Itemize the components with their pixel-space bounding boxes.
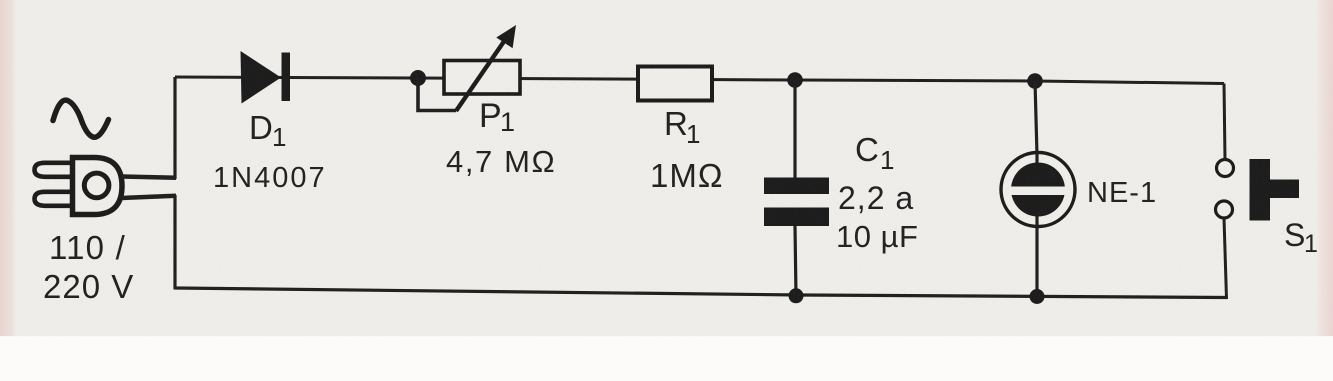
plug body	[73, 158, 123, 215]
plug prong upper	[35, 163, 72, 177]
potentiometer P1 body	[444, 61, 520, 95]
node junction dot NE-1 bottom	[1030, 289, 1045, 304]
resistor R1 body	[638, 67, 712, 101]
node junction dot C1 bottom	[789, 288, 804, 303]
neon lamp NE-1 envelope	[1001, 153, 1075, 227]
node A junction dot	[410, 70, 426, 86]
wire left bus upper	[173, 77, 176, 179]
wire NE-1 upper lead	[1035, 81, 1037, 155]
wire left bus lower	[173, 195, 176, 290]
AC source sine symbol	[53, 100, 109, 137]
wire bottom rail	[175, 288, 1227, 298]
diode D1	[241, 51, 282, 104]
scanner white below page	[0, 336, 1333, 381]
capacitor C1 plate upper	[764, 178, 829, 195]
right pink edge	[1316, 0, 1333, 340]
node C junction dot (NE-1 top)	[1027, 73, 1043, 89]
wire NE-1 lower lead	[1035, 225, 1038, 297]
wire plug to bus lower	[121, 196, 176, 198]
potentiometer P1 wiper bypass wire	[418, 78, 456, 111]
potentiometer P1 arrow	[456, 39, 506, 112]
switch S1 contact lower	[1216, 201, 1233, 218]
switch S1 button	[1250, 159, 1300, 221]
plug center circle	[84, 173, 109, 198]
plug prong lower	[35, 192, 72, 206]
switch S1 contact upper	[1217, 160, 1234, 177]
wire C1 lower lead	[795, 226, 796, 296]
left pink edge	[0, 0, 16, 340]
wire right bus lower	[1224, 218, 1227, 299]
wire plug to bus upper	[121, 177, 176, 178]
capacitor C1 plate lower	[764, 208, 829, 227]
neon lamp NE-1 electrodes	[1011, 163, 1065, 217]
wire top rail	[175, 77, 1224, 84]
wire through lamp	[1035, 153, 1038, 227]
wire C1 upper lead	[793, 80, 796, 178]
wire right bus upper	[1224, 84, 1225, 160]
node B junction dot (C1 top)	[787, 72, 803, 88]
